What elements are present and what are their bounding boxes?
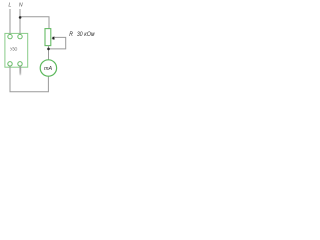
svg-text:mA: mA (44, 66, 52, 72)
wire junction to resistor top (20, 17, 49, 29)
svg-text:N: N (19, 2, 23, 8)
resistor value label R 30 kOhm (69, 31, 95, 38)
terminal bottom-right (18, 62, 22, 66)
svg-text:УЗО: УЗО (10, 46, 18, 51)
wire N vertical (19, 9, 21, 35)
junction dot on N wire (19, 16, 22, 19)
svg-text:30: 30 (77, 31, 83, 38)
terminal top-left (8, 34, 12, 38)
wire stub under N terminal (19, 66, 21, 75)
svg-text:R: R (69, 31, 73, 38)
wire wiper loop (49, 37, 66, 49)
wire resistor bottom to meter (48, 46, 50, 60)
terminal bottom-left (8, 62, 12, 66)
milliammeter mA (40, 60, 56, 76)
resistor R (potentiometer body) (45, 29, 51, 46)
terminal top-right (18, 34, 22, 38)
wiper arrow of potentiometer (52, 37, 55, 40)
svg-text:кОм: кОм (84, 31, 95, 38)
RCD box UZO (5, 33, 28, 67)
junction dot below resistor (47, 48, 50, 51)
wire meter bottom to box bottom-left (10, 66, 48, 92)
wire L vertical (9, 9, 11, 35)
svg-text:L: L (8, 2, 11, 8)
